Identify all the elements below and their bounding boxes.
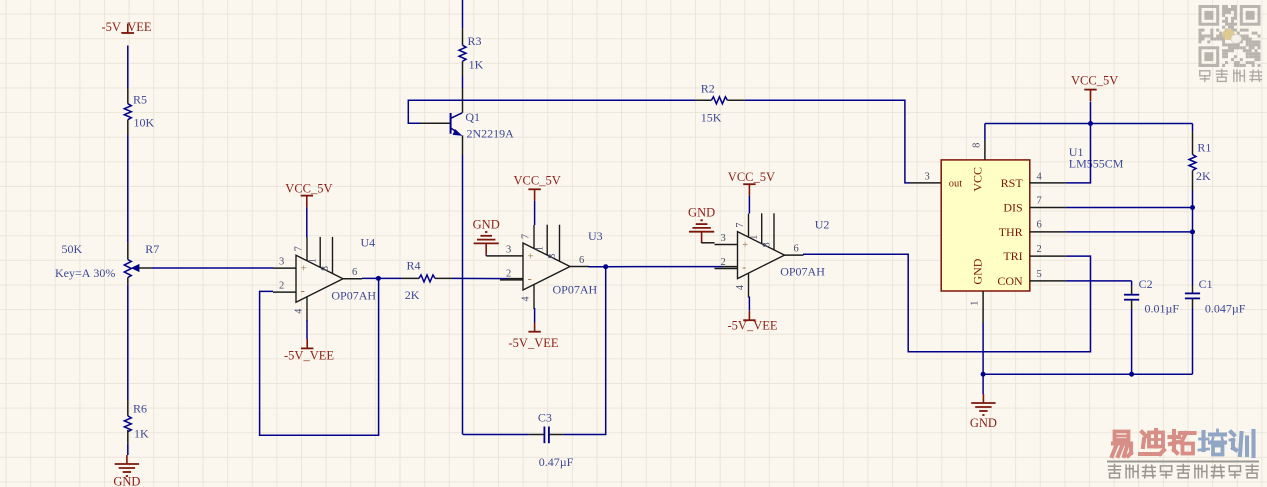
resistor R6: [124, 416, 131, 444]
capacitor C2: [1124, 295, 1139, 309]
555 pin 1 stub: [969, 291, 983, 374]
node 555 GND junction: [981, 372, 986, 377]
power -5V_VEE (top left net): [102, 20, 152, 34]
svg-text:+: +: [742, 239, 748, 251]
power VCC_5V (U3): [514, 174, 561, 201]
svg-text:0.01µF: 0.01µF: [1145, 302, 1180, 316]
svg-text:U3: U3: [588, 229, 603, 243]
svg-text:R6: R6: [133, 402, 147, 416]
resistor R4: [419, 275, 452, 282]
wire R4 to U3 pin2: [452, 277, 523, 279]
wire Q1 emitter down to C3 loop: [462, 135, 464, 434]
power VCC_5V (U4): [285, 182, 332, 208]
ground (left bottom): [113, 455, 140, 487]
wire R1 to C1: [1192, 190, 1194, 293]
wire GND to U3 pin3: [486, 255, 500, 256]
wire U3 pin4 to -5V_VEE: [534, 308, 536, 323]
svg-text:+: +: [301, 263, 307, 275]
wire -5V_VEE to R5: [127, 46, 129, 104]
wire U3 feedback to C3: [549, 267, 606, 435]
label C1 value 0.047uF: [1199, 277, 1246, 316]
svg-text:GND: GND: [473, 217, 500, 231]
svg-text:4: 4: [1037, 172, 1043, 183]
svg-text:LM555CM: LM555CM: [1069, 157, 1124, 171]
555 pin 7 DIS wire: [1030, 196, 1193, 208]
svg-text:VCC_5V: VCC_5V: [514, 174, 561, 188]
wire U2 pin4 to -5V_VEE: [748, 297, 750, 311]
svg-text:C1: C1: [1199, 277, 1213, 291]
svg-text:4: 4: [294, 309, 305, 314]
wire R2 left segment: [463, 99, 712, 101]
svg-text:-5V_VEE: -5V_VEE: [509, 336, 559, 350]
wire VCC_5V to U4 pin7: [306, 207, 308, 237]
watermark logo text (red+blue brand): [1112, 430, 1254, 456]
svg-text:15K: 15K: [701, 111, 722, 125]
label C2 value 0.01uF: [1139, 277, 1180, 316]
555 pin name CON: [997, 274, 1023, 288]
svg-text:2K: 2K: [405, 288, 420, 302]
label R6 value 1K: [133, 402, 149, 441]
555 pin 6 THR wire: [1030, 220, 1193, 232]
svg-text:-5V_VEE: -5V_VEE: [728, 319, 778, 333]
wire top feed to R3: [462, 0, 464, 45]
svg-text:DIS: DIS: [1003, 200, 1022, 214]
svg-text:Q1: Q1: [465, 110, 480, 124]
op-amp U3 OP07AH: [500, 225, 603, 309]
555 pin 4 RST wire: [1030, 124, 1091, 183]
node U4 output junction: [376, 276, 381, 281]
svg-text:CON: CON: [997, 274, 1023, 288]
svg-text:out: out: [949, 178, 963, 189]
svg-text:VCC: VCC: [970, 167, 984, 192]
wire U4 pin2 feedback loop: [260, 278, 379, 435]
svg-text:10K: 10K: [134, 116, 155, 130]
555 pin name out: [949, 178, 963, 189]
svg-text:C2: C2: [1139, 277, 1153, 291]
label R2 value 15K: [701, 82, 722, 125]
svg-text:4: 4: [735, 285, 746, 290]
op-amp U4 OP07AH: [273, 236, 376, 322]
svg-text:3: 3: [925, 172, 930, 183]
wire R2 to 555 out pin3: [745, 100, 941, 183]
resistor R3: [459, 45, 466, 88]
wire VCC_5V vertical: [1090, 102, 1092, 124]
svg-text:TRI: TRI: [1003, 249, 1022, 263]
svg-text:THR: THR: [999, 225, 1023, 239]
555 pin name TRI: [1003, 249, 1022, 263]
label R3 value 1K: [468, 34, 484, 72]
svg-text:GND: GND: [970, 416, 997, 430]
wire U4 output to R4: [362, 277, 419, 279]
svg-text:1K: 1K: [469, 58, 484, 72]
wire CON to C2: [1131, 281, 1133, 295]
svg-text:0.047µF: 0.047µF: [1205, 302, 1246, 316]
wire U2 output to 555 TRI: [803, 254, 1091, 351]
wire R5 to R7: [127, 135, 129, 260]
wire ground rail: [983, 373, 1192, 375]
svg-text:R4: R4: [407, 259, 421, 273]
svg-text:6: 6: [579, 255, 584, 266]
power -5V_VEE (U3): [509, 322, 559, 350]
wire GND junction down: [982, 374, 984, 394]
label R7 50K Key=A 30%: [55, 242, 159, 280]
svg-text:8: 8: [971, 143, 982, 148]
label C3 value 0.47uF: [538, 411, 574, 470]
transistor Q1 2N2219A: [451, 113, 463, 136]
svg-text:6: 6: [352, 267, 357, 278]
power VCC_5V (U2): [728, 170, 775, 196]
svg-text:7: 7: [294, 246, 305, 251]
svg-text:2: 2: [279, 281, 284, 292]
555 pin 2 TRI stub: [1030, 244, 1066, 256]
svg-text:R5: R5: [133, 93, 147, 107]
555 pin name RST: [1001, 176, 1024, 190]
label U1 LM555CM: [1069, 145, 1124, 171]
svg-text:3: 3: [279, 257, 284, 268]
wire VCC_5V to U2 pin7: [748, 196, 750, 214]
555 pin name THR: [999, 225, 1023, 239]
svg-text:7: 7: [1037, 196, 1042, 207]
power -5V_VEE (U4): [284, 339, 334, 363]
node U3 output junction: [603, 264, 608, 269]
svg-text:VCC_5V: VCC_5V: [1071, 74, 1118, 88]
wire U4 pin4 to -5V_VEE: [306, 320, 308, 339]
svg-text:2: 2: [1037, 244, 1042, 255]
watermark underline: [1107, 461, 1259, 463]
svg-text:50K: 50K: [62, 242, 83, 256]
svg-text:-: -: [528, 271, 532, 286]
wire GND to U2 pin3: [702, 242, 715, 244]
svg-text:VCC_5V: VCC_5V: [285, 182, 332, 196]
svg-text:1: 1: [308, 258, 319, 263]
wire R7 to R6: [127, 285, 129, 416]
555 pin 5 CON wire: [1030, 269, 1132, 281]
svg-text:0.47µF: 0.47µF: [539, 455, 574, 469]
ground (555): [970, 394, 997, 430]
wire R7 wiper to U4 pin3: [152, 267, 273, 269]
svg-text:2: 2: [506, 268, 511, 279]
label R4 value 2K: [405, 259, 421, 303]
watermark text WeChat contact: [1200, 70, 1262, 82]
svg-text:U4: U4: [361, 236, 376, 250]
svg-text:R3: R3: [468, 34, 482, 48]
label 555 pin 3: [925, 172, 930, 183]
svg-text:-: -: [742, 259, 746, 274]
IC U1 LM555CM body: [941, 160, 1030, 291]
svg-text:OP07AH: OP07AH: [331, 289, 376, 303]
svg-text:4: 4: [521, 297, 532, 302]
svg-text:R7: R7: [145, 242, 159, 256]
svg-text:VCC_5V: VCC_5V: [728, 170, 775, 184]
svg-text:8: 8: [320, 266, 331, 271]
wire C1 to ground rail: [1192, 308, 1194, 374]
svg-text:8: 8: [547, 254, 558, 259]
svg-text:-5V_VEE: -5V_VEE: [102, 20, 152, 34]
svg-text:3: 3: [721, 233, 726, 244]
watermark QR code (WeChat): [1199, 5, 1261, 67]
svg-text:-: -: [301, 283, 305, 298]
svg-text:6: 6: [1037, 220, 1042, 231]
555 pin name DIS: [1003, 200, 1022, 214]
svg-text:-5V_VEE: -5V_VEE: [284, 349, 334, 363]
svg-text:7: 7: [735, 223, 746, 228]
wire R3 to Q1 collector node: [462, 88, 464, 113]
wire VCC rail to R1: [1192, 124, 1194, 155]
555 pin name VCC (rotated): [970, 167, 984, 192]
svg-text:RST: RST: [1001, 176, 1024, 190]
svg-text:6: 6: [794, 244, 799, 255]
wire VCC_5V to U3 pin7: [534, 201, 536, 225]
node DIS-R1 junction: [1190, 205, 1195, 210]
wire Q1 base loop: [408, 100, 462, 123]
svg-text:OP07AH: OP07AH: [553, 283, 598, 297]
label Q1 2N2219A: [465, 110, 514, 141]
svg-text:1: 1: [969, 301, 980, 306]
label R1 value 2K: [1196, 141, 1211, 184]
svg-text:+: +: [528, 251, 534, 263]
svg-text:GND: GND: [113, 475, 140, 487]
node THR-R1 junction: [1190, 229, 1195, 234]
power VCC_5V (555): [1071, 74, 1118, 102]
op-amp U2 OP07AH: [715, 213, 830, 297]
svg-text:1K: 1K: [134, 427, 149, 441]
node VCC junction: [1088, 121, 1093, 126]
svg-text:5: 5: [1037, 269, 1042, 280]
resistor R2: [711, 97, 744, 104]
svg-text:OP07AH: OP07AH: [780, 265, 825, 279]
wire C2 to ground rail: [1131, 309, 1133, 374]
capacitor C1: [1185, 293, 1200, 308]
svg-text:3: 3: [506, 244, 511, 255]
wire R6 to ground: [127, 444, 129, 455]
watermark slogan text: [1109, 465, 1258, 478]
svg-text:1: 1: [749, 235, 760, 240]
svg-text:2N2219A: 2N2219A: [467, 127, 515, 141]
wire VCC rail: [985, 123, 1193, 125]
label R5 value 10K: [133, 93, 155, 130]
resistor R1: [1189, 155, 1196, 191]
wire C3 to Q1 emitter node: [463, 434, 529, 436]
svg-text:R1: R1: [1197, 141, 1211, 155]
svg-text:7: 7: [521, 234, 532, 239]
capacitor C3: [529, 427, 549, 444]
svg-text:C3: C3: [538, 411, 552, 425]
svg-text:GND: GND: [688, 206, 715, 220]
svg-text:R2: R2: [701, 82, 715, 96]
node C2 ground junction: [1129, 372, 1134, 377]
svg-text:2K: 2K: [1196, 169, 1211, 183]
svg-text:Key=A 30%: Key=A 30%: [55, 266, 115, 280]
wire U3 output: [588, 266, 605, 268]
svg-text:1: 1: [535, 246, 546, 251]
power -5V_VEE (U2): [728, 311, 778, 333]
svg-text:2: 2: [721, 257, 726, 268]
ground (U2 non-inverting input): [688, 206, 715, 244]
555 pin name GND (rotated): [970, 258, 984, 284]
potentiometer R7: [124, 260, 152, 285]
ground (U3 non-inverting input): [473, 217, 500, 255]
resistor R5: [124, 104, 131, 135]
svg-text:U2: U2: [815, 218, 830, 232]
wire U3 output to U2 pin2: [606, 266, 738, 268]
svg-text:8: 8: [762, 242, 773, 247]
svg-text:GND: GND: [970, 258, 984, 284]
555 pin 8 stub: [971, 124, 985, 160]
